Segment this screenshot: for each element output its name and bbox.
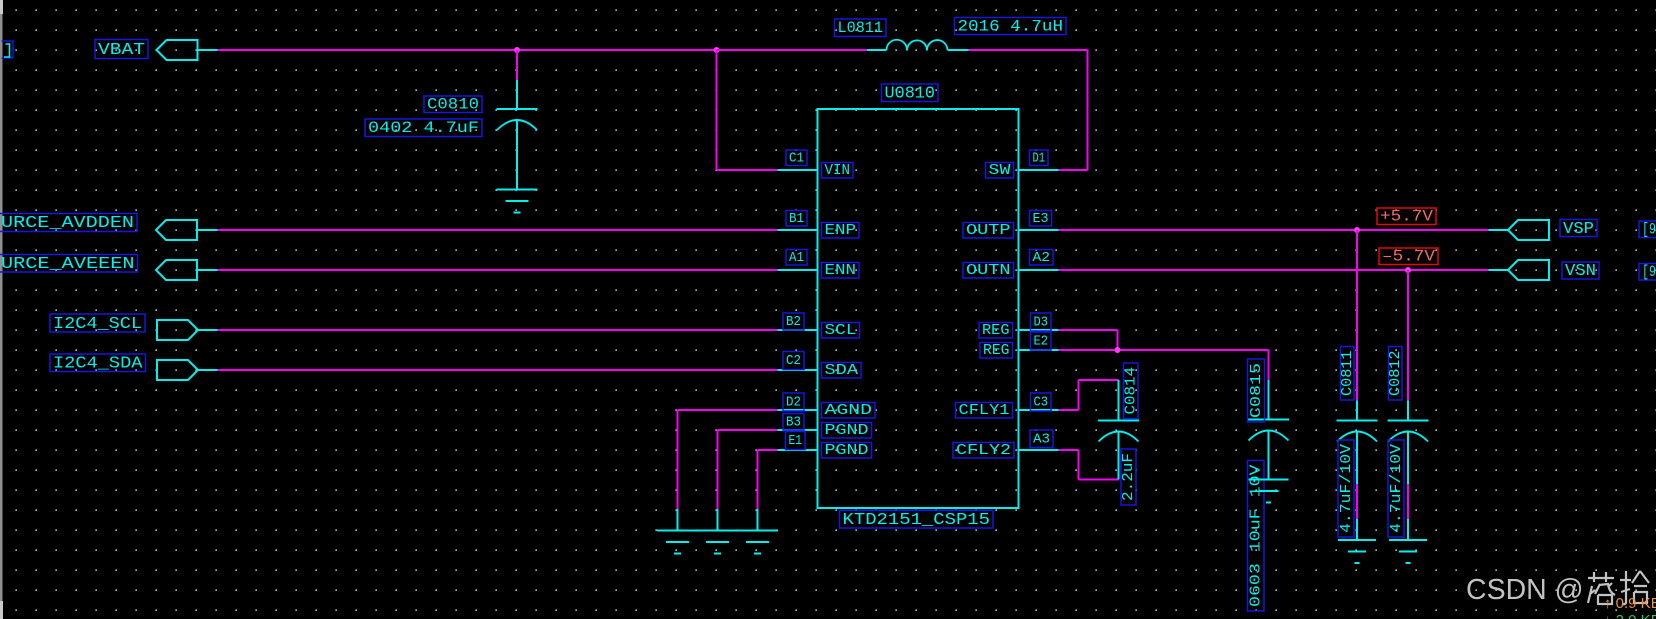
svg-text:I2C4_SDA: I2C4_SDA xyxy=(53,355,143,374)
svg-text:SDA: SDA xyxy=(825,363,859,379)
junction OUTN-C0812 xyxy=(1405,267,1411,273)
pin B2 SCL xyxy=(778,313,860,339)
pin E3 OUTP xyxy=(963,211,1059,240)
svg-text:A2: A2 xyxy=(1033,250,1051,266)
svg-text:VSP: VSP xyxy=(1563,220,1594,239)
wire ENN xyxy=(197,269,778,271)
overlay download speed xyxy=(1604,612,1656,619)
pin A3 CFLY2 xyxy=(953,430,1059,459)
overlay upload speed xyxy=(1604,595,1656,612)
pin B1 ENP xyxy=(778,211,860,240)
svg-text:REG: REG xyxy=(983,343,1010,359)
pin A1 ENN xyxy=(778,250,860,280)
svg-text:0402 4.7uF: 0402 4.7uF xyxy=(368,119,479,137)
junction VBAT-C0810 xyxy=(514,47,520,53)
ground below C0811 xyxy=(1338,540,1376,563)
svg-text:[9: [9 xyxy=(1642,221,1656,239)
net label +5.7V xyxy=(1377,208,1436,226)
ground PGND B3 xyxy=(697,531,738,554)
capacitor C0811 xyxy=(1337,347,1378,538)
wire SDA xyxy=(198,369,778,371)
svg-text:L0811: L0811 xyxy=(838,19,884,37)
watermark CSDN @落拾 xyxy=(1466,571,1649,606)
wire SCL xyxy=(198,329,778,331)
svg-text:VBAT: VBAT xyxy=(98,41,145,60)
svg-text:E1: E1 xyxy=(789,433,803,449)
svg-text:C0815: C0815 xyxy=(1248,363,1265,418)
svg-text:4.7uF/10V: 4.7uF/10V xyxy=(1338,444,1355,533)
wire VBAT to VIN xyxy=(717,50,778,170)
svg-text:B2: B2 xyxy=(786,314,801,330)
net label -5.7V xyxy=(1379,248,1438,266)
svg-text:2016 4.7uH: 2016 4.7uH xyxy=(958,17,1064,35)
svg-text:C2: C2 xyxy=(786,353,801,369)
svg-text:URCE_AVEEEN: URCE_AVEEEN xyxy=(1,255,135,274)
pin A2 OUTN xyxy=(963,250,1059,280)
svg-text:URCE_AVDDEN: URCE_AVDDEN xyxy=(1,214,134,233)
ground PGND E1 xyxy=(737,531,778,554)
svg-text:4.7uF/10V: 4.7uF/10V xyxy=(1388,444,1405,533)
svg-text:SCL: SCL xyxy=(825,323,857,339)
port SOURCE_AVEEEN xyxy=(0,255,197,281)
svg-text:OUTP: OUTP xyxy=(966,223,1011,239)
wire PGND E1 xyxy=(758,450,778,531)
pin B3 PGND xyxy=(778,414,872,440)
clipped off-page label ] xyxy=(2,41,14,58)
svg-text:CSDN @: CSDN @ xyxy=(1466,574,1584,606)
svg-text:E3: E3 xyxy=(1033,211,1049,227)
capacitor C0815 xyxy=(1248,359,1290,611)
svg-text:↓ 2.0 KB: ↓ 2.0 KB xyxy=(1604,612,1656,619)
wire OUTP to VSP xyxy=(1059,229,1489,231)
capacitor C0810 xyxy=(365,96,538,138)
svg-text:OUTN: OUTN xyxy=(966,263,1011,279)
pin E1 PGND xyxy=(778,432,872,460)
wire CFLY1 to C0814 xyxy=(1059,380,1119,410)
pin D2 AGND xyxy=(778,393,876,419)
svg-text:↑ 0.9 KB: ↑ 0.9 KB xyxy=(1604,595,1656,612)
wire OUTN to VSN xyxy=(1059,269,1489,271)
pin C3 CFLY1 xyxy=(956,393,1059,419)
wire VBAT to L0811 xyxy=(717,49,868,51)
svg-text:C0811: C0811 xyxy=(1339,351,1356,397)
junction OUTP-C0811 xyxy=(1354,227,1360,233)
pin E2 REG xyxy=(980,332,1059,359)
svg-text:–5.7V: –5.7V xyxy=(1382,248,1435,266)
svg-text:B3: B3 xyxy=(786,414,801,430)
ground below C0810 xyxy=(497,190,538,213)
ic U0810 body xyxy=(818,84,1019,508)
pin C2 SDA xyxy=(778,352,862,380)
ground AGND xyxy=(657,531,698,554)
svg-text:VSN: VSN xyxy=(1565,262,1596,281)
svg-text:A3: A3 xyxy=(1033,431,1050,447)
junction VBAT-VIN xyxy=(714,47,720,53)
wire ENP xyxy=(197,229,778,231)
svg-text:2.2uF: 2.2uF xyxy=(1120,453,1137,501)
pin D3 REG xyxy=(979,313,1059,339)
pin D1 SW xyxy=(986,150,1059,179)
wire VSN to C0812 xyxy=(1407,270,1409,421)
inductor L0811 xyxy=(835,17,1067,50)
svg-text:I2C4_SCL: I2C4_SCL xyxy=(53,315,142,334)
wire C0811 to ground xyxy=(1356,431,1358,540)
wire L0811 to SW xyxy=(969,50,1088,170)
svg-text:B1: B1 xyxy=(789,211,804,227)
svg-text:U0810: U0810 xyxy=(885,85,936,104)
svg-text:KTD2151_CSP15: KTD2151_CSP15 xyxy=(843,511,991,530)
port I2C4_SDA xyxy=(50,354,198,380)
svg-text:PGND: PGND xyxy=(825,423,869,439)
svg-text:C0812: C0812 xyxy=(1387,351,1404,397)
label KTD2151_CSP15 xyxy=(840,511,994,531)
svg-text:ENP: ENP xyxy=(825,223,857,239)
svg-text:D2: D2 xyxy=(786,395,801,411)
svg-text:D1: D1 xyxy=(1033,151,1046,167)
wire VBAT to C0810 xyxy=(516,50,518,109)
port VBAT xyxy=(95,40,198,61)
port VSP xyxy=(1489,220,1598,241)
svg-text:PGND: PGND xyxy=(825,443,869,459)
pin C1 VIN xyxy=(778,150,854,179)
svg-text:REG: REG xyxy=(982,323,1010,339)
svg-text:+5.7V: +5.7V xyxy=(1380,208,1433,226)
junction REG xyxy=(1115,347,1121,353)
svg-text:C0810: C0810 xyxy=(427,96,479,114)
svg-text:VIN: VIN xyxy=(825,163,851,179)
wire PGND B3 xyxy=(718,430,778,531)
capacitor C0812 xyxy=(1387,347,1429,538)
svg-text:CFLY2: CFLY2 xyxy=(956,443,1011,459)
clipped label [9 upper xyxy=(1639,221,1656,239)
clipped label [9 lower xyxy=(1639,263,1656,281)
port I2C4_SCL xyxy=(50,314,198,340)
wire VBAT horizontal xyxy=(198,49,717,51)
svg-text:SW: SW xyxy=(989,163,1011,179)
wire REG E2 to C0815 xyxy=(1059,350,1269,420)
wire AGND xyxy=(678,410,778,531)
wire C0815 to ground xyxy=(1268,430,1270,480)
svg-text:A1: A1 xyxy=(789,250,804,266)
ground below C0815 xyxy=(1249,480,1289,503)
wire C0810 to ground xyxy=(516,121,518,190)
svg-text:C3: C3 xyxy=(1034,395,1049,411)
svg-text:C0814: C0814 xyxy=(1123,367,1140,415)
wire CFLY2 to C0814 xyxy=(1059,431,1119,480)
ground below C0812 xyxy=(1389,540,1427,563)
wire REG D3 xyxy=(1059,330,1118,350)
port VSN xyxy=(1489,260,1600,281)
svg-text:AGND: AGND xyxy=(825,403,873,419)
svg-text:E2: E2 xyxy=(1034,334,1049,350)
svg-text:D3: D3 xyxy=(1034,315,1049,331)
svg-text:[9: [9 xyxy=(1642,263,1656,281)
capacitor C0814 xyxy=(1098,363,1140,505)
wire C0812 to ground xyxy=(1407,431,1409,540)
svg-text:0603 10uF 10V: 0603 10uF 10V xyxy=(1248,465,1265,608)
wire VSP to C0811 xyxy=(1356,230,1358,421)
svg-text:ENN: ENN xyxy=(825,263,857,279)
svg-text:CFLY1: CFLY1 xyxy=(959,403,1010,419)
svg-text:C1: C1 xyxy=(789,151,804,167)
port SOURCE_AVDDEN xyxy=(0,214,197,241)
